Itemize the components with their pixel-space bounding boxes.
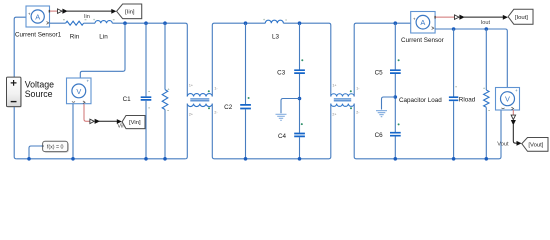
capacitor C5 xyxy=(390,70,401,73)
C3 polarity dot xyxy=(301,59,303,61)
wire: stem to ground G2 xyxy=(281,99,300,114)
svg-text:Rload: Rload xyxy=(459,96,476,103)
signal wire to [Vin] xyxy=(99,120,117,122)
svg-text:+: + xyxy=(515,88,518,93)
ground G1 xyxy=(376,111,387,117)
PS-Simulink converter triangle (Vout) xyxy=(511,115,515,120)
inductor L3 xyxy=(265,20,283,23)
junction dot (125,23.2) xyxy=(123,21,127,25)
junction dot (146,23.2) xyxy=(144,21,148,25)
svg-text:[Vout]: [Vout] xyxy=(528,143,543,149)
T1 secondary winding xyxy=(187,104,212,107)
voltage sensor V2 block xyxy=(496,88,520,111)
junction dot (29,158.8) xyxy=(27,157,31,161)
goto tag [Iout] xyxy=(508,9,533,24)
resistor R damping xyxy=(162,90,168,110)
resistor Rin xyxy=(66,21,84,25)
junction dot (453.6,158.8) xyxy=(452,157,456,161)
svg-text:Source: Source xyxy=(25,89,53,99)
ground G2 xyxy=(276,114,287,120)
junction dot (395.3,23.2) xyxy=(394,21,398,25)
inductor Lin xyxy=(95,21,112,24)
wire: C6 bottom xyxy=(394,137,396,159)
junction dot (165,23.2) xyxy=(163,21,167,25)
PS-Simulink converter triangle (Vin) xyxy=(90,119,94,124)
wire: C5 top xyxy=(394,23,396,69)
voltage source V block xyxy=(7,77,22,107)
svg-text:C4: C4 xyxy=(278,133,287,140)
C2 polarity dot xyxy=(248,97,250,99)
pin marks C1 xyxy=(148,90,150,93)
wire: section1 left vertical (sensor + to source +) xyxy=(14,17,26,77)
svg-text:+: + xyxy=(413,16,416,21)
solid arrow (Vout) xyxy=(511,120,516,125)
current sensor A2 block xyxy=(411,12,436,34)
signal: V2 red down xyxy=(512,110,514,115)
svg-text:V: V xyxy=(505,95,510,104)
svg-text:Current Sensor1: Current Sensor1 xyxy=(15,32,62,39)
solid arrow (Iin) xyxy=(62,9,67,14)
signal: A2 red stub xyxy=(436,16,455,18)
capacitor C1 xyxy=(141,97,152,100)
svg-text:+: + xyxy=(87,79,90,84)
junction dot (299.5,158.8) xyxy=(298,157,302,161)
svg-text:C2: C2 xyxy=(224,104,233,111)
capacitor C2 xyxy=(240,105,251,109)
wire: C3 top xyxy=(299,23,301,69)
solver config block f(x)=0 xyxy=(42,141,69,152)
wire: L3 to section2 right corner xyxy=(283,23,330,96)
signal wire to [Iin] xyxy=(67,10,112,12)
signal wire to [Vout] xyxy=(513,125,517,144)
svg-text:A: A xyxy=(35,12,40,21)
wire: section1 top to transformer T1 xyxy=(112,23,187,96)
junction dot (299.5,98.5) xyxy=(298,97,302,101)
goto tag [Iin] xyxy=(117,4,143,19)
junction dot (146,158.8) xyxy=(144,157,148,161)
T1 polarity dots xyxy=(208,90,210,92)
signal wire to [Iout] xyxy=(464,16,503,18)
wire: capacitor load top xyxy=(453,29,455,97)
svg-text:2+: 2+ xyxy=(189,112,193,116)
junction dot (299.5,23.2) xyxy=(298,21,302,25)
wire: T2 secondary right up + section3 top xyxy=(354,23,411,96)
resistor Rload xyxy=(484,90,489,107)
signal: V1 red down xyxy=(84,104,90,121)
signal: A1 red stub xyxy=(50,10,57,12)
junction dot (245.5,23.2) xyxy=(244,21,248,25)
svg-text:[Vin]: [Vin] xyxy=(129,120,141,126)
wire: A2 out along top xyxy=(435,29,507,88)
junction dot (395.3,158.8) xyxy=(394,157,398,161)
wire: Rin to Lin xyxy=(84,22,95,24)
C4 polarity dot xyxy=(301,123,303,125)
C5 polarity dot xyxy=(398,59,400,61)
wire: solver to bus xyxy=(29,146,43,159)
svg-text:Lin: Lin xyxy=(99,33,108,40)
wire: stem to ground G1 xyxy=(382,97,396,110)
T1 core xyxy=(190,99,209,101)
transformer T1 xyxy=(187,84,218,117)
svg-text:Iout: Iout xyxy=(481,20,491,26)
svg-text:f(x) = 0: f(x) = 0 xyxy=(47,145,64,151)
T1 primary winding xyxy=(187,94,212,97)
junction dot (245.5,158.8) xyxy=(244,157,248,161)
capacitor Capacitor Load xyxy=(449,97,458,100)
T2 core xyxy=(334,99,351,101)
wire: V1 - down to bus xyxy=(72,104,74,159)
svg-text:C5: C5 xyxy=(375,70,384,77)
wire: damping resistor top xyxy=(164,23,166,89)
svg-text:1+: 1+ xyxy=(189,84,193,88)
T2 secondary winding xyxy=(331,104,354,107)
transformer T2 xyxy=(331,84,360,117)
wire: A1 out to Rin xyxy=(50,22,66,24)
wire: T1 secondary left down to bus2 xyxy=(212,23,265,96)
wire: source - down to bus xyxy=(14,107,16,159)
junction dot (486.3,158.8) xyxy=(485,157,489,161)
junction dot (165,158.8) xyxy=(163,157,167,161)
svg-text:Vout: Vout xyxy=(497,142,509,148)
T2 polarity dots xyxy=(350,90,352,92)
voltage sensor V1 block xyxy=(67,78,92,104)
svg-text:C1: C1 xyxy=(123,96,132,103)
svg-text:1+: 1+ xyxy=(332,84,336,88)
wire: C4 bottom xyxy=(299,137,301,159)
wire: C5 to C6 xyxy=(394,74,396,132)
svg-text:V: V xyxy=(76,87,81,96)
goto tag [Vout] xyxy=(522,138,548,152)
junction dot (73,158.8) xyxy=(71,157,75,161)
C6 polarity dot xyxy=(398,123,400,125)
wire: C2 bottom xyxy=(245,109,247,159)
wire: C3 to C4 xyxy=(299,74,301,133)
wire: C2 top xyxy=(245,23,247,104)
junction dot (395.3,97) xyxy=(394,95,398,99)
solid arrow (Iout) xyxy=(459,15,464,20)
wire: T1 bottom-left stub to bus1 xyxy=(185,104,187,159)
capacitor C3 xyxy=(294,70,305,73)
junction dot (453.6,29) xyxy=(452,27,456,31)
T2 primary winding xyxy=(331,94,354,97)
svg-text:Current Sensor: Current Sensor xyxy=(401,37,444,44)
svg-text:2+: 2+ xyxy=(332,112,336,116)
PS-Simulink converter triangle (Iin) xyxy=(58,9,63,14)
wire: Rload bottom xyxy=(485,107,487,159)
solid arrow (Vin) xyxy=(95,119,100,124)
wire: T2 bottom-right stub + section3 bus xyxy=(354,104,501,159)
wire: T1 bottom-right stub + section2 bus xyxy=(212,104,330,159)
wire: section1 bottom bus xyxy=(16,158,185,160)
svg-text:+: + xyxy=(28,11,31,16)
junction dot (486.3,29) xyxy=(485,27,489,31)
svg-text:Rin: Rin xyxy=(70,33,80,40)
svg-text:Capacitor Load: Capacitor Load xyxy=(399,97,442,104)
pin mark capload xyxy=(455,85,457,88)
svg-text:[Iin]: [Iin] xyxy=(125,10,135,16)
wire: C1 top xyxy=(145,23,147,96)
wire: damping resistor bottom xyxy=(164,110,166,159)
capacitor C6 xyxy=(390,133,401,136)
svg-text:L3: L3 xyxy=(272,34,280,41)
wire: capacitor load bottom xyxy=(453,101,455,159)
svg-text:Iin: Iin xyxy=(84,14,90,20)
svg-text:A: A xyxy=(420,18,425,27)
capacitor C4 xyxy=(294,134,305,137)
current sensor A1 block xyxy=(26,6,50,27)
goto tag [Vin] xyxy=(121,116,145,130)
svg-text:[Iout]: [Iout] xyxy=(515,15,528,21)
PS-Simulink converter triangle (Iout) xyxy=(455,15,460,20)
wire: node to V1 + xyxy=(80,23,125,78)
svg-text:C6: C6 xyxy=(375,132,384,139)
pin marks Rin xyxy=(63,18,65,21)
svg-text:C3: C3 xyxy=(277,70,286,77)
wire: Rload top xyxy=(485,29,487,90)
wire: C1 bottom xyxy=(145,101,147,159)
